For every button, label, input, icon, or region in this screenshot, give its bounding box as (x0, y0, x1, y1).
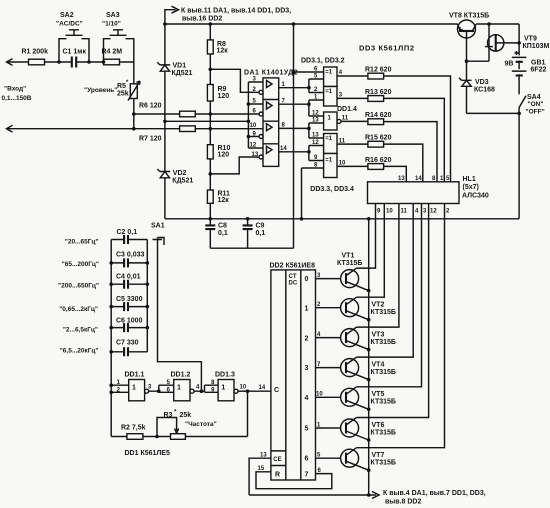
node junction C1 right (87, 60, 91, 64)
node junction battery column bottom (517, 112, 521, 116)
capacitor C2 (111, 239, 147, 241)
svg-text:12к: 12к (218, 197, 230, 204)
svg-text:"20...65Гц": "20...65Гц" (65, 239, 99, 246)
svg-text:VD2: VD2 (173, 170, 187, 177)
svg-text:1: 1 (177, 385, 181, 392)
resistor R6 (180, 111, 196, 117)
wire base VT6 (316, 427, 341, 429)
svg-text:C4 0,01: C4 0,01 (116, 274, 141, 281)
svg-text:12: 12 (312, 140, 319, 146)
node junction bus1 pin6 (292, 70, 296, 74)
transistor VT3 (341, 329, 359, 347)
svg-text:0,1: 0,1 (218, 230, 228, 237)
svg-text:C8: C8 (218, 223, 227, 230)
svg-text:"AC/DC": "AC/DC" (56, 21, 83, 28)
wire R5 column (133, 62, 135, 129)
wire VT8 base node (467, 60, 490, 62)
wire HL1 pin9 to VT1 collector (357, 204, 376, 269)
svg-text:11: 11 (339, 138, 346, 144)
svg-text:12: 12 (312, 111, 319, 117)
svg-text:"6,5...20кГц": "6,5...20кГц" (60, 348, 99, 355)
svg-text:0,1: 0,1 (256, 230, 266, 237)
resistor R10 (207, 145, 213, 159)
transistor VT8 (458, 20, 476, 38)
wire capacitor right bus (146, 240, 148, 352)
wire C8 C9 bottom (210, 247, 293, 249)
zener VD3 (466, 61, 468, 113)
svg-text:7: 7 (305, 472, 309, 479)
svg-text:К выв.4 DA1, выв.7 DD1, DD3,: К выв.4 DA1, выв.7 DD1, DD3, (383, 490, 486, 497)
svg-text:C: C (274, 387, 279, 394)
wire gate4 output to R15 (337, 144, 423, 182)
svg-text:SA3: SA3 (106, 12, 120, 19)
wire gate input connector D (309, 146, 324, 161)
node junction R5 to R6 line (132, 112, 136, 116)
wire HL1 pin12 to VT6 collector (357, 204, 429, 418)
node junction R10 R11 tap (209, 172, 213, 176)
resistor R14 (368, 119, 384, 125)
svg-text:VT2: VT2 (372, 302, 385, 309)
wire base VT2 (316, 307, 341, 309)
svg-text:13: 13 (312, 133, 319, 139)
wire DD2 clock input (248, 390, 271, 392)
svg-text:VD1: VD1 (173, 63, 187, 70)
resistor R11 (207, 190, 213, 203)
svg-text:VT1: VT1 (342, 253, 355, 260)
wire gate input connector B (309, 100, 324, 116)
node junction R5 column to input line 2 (132, 127, 136, 131)
potentiometer R5 (130, 84, 137, 99)
wire DA1 output 14 (279, 151, 309, 153)
svg-text:CE: CE (273, 457, 281, 463)
wire DD1.2 out to DD1.3 (194, 385, 218, 392)
wire tap to DA1 pin13 (210, 157, 259, 174)
node junction base VD3 (465, 59, 469, 63)
wire gate5 output to R16 (337, 166, 406, 181)
capacitor C1 (72, 57, 76, 68)
node junction rail C8 (246, 217, 250, 221)
svg-text:12: 12 (430, 209, 437, 215)
wire base VT7 (316, 457, 341, 459)
wire gate3 output to R14 (341, 121, 437, 181)
wire DD2 R reset loop from output 7 (256, 472, 332, 489)
svg-text:DD3 К561ЛП2: DD3 К561ЛП2 (359, 44, 415, 53)
svg-text:9В: 9В (505, 61, 514, 68)
svg-text:R5: R5 (117, 83, 126, 90)
gate DD3.4 (324, 154, 337, 178)
resistor R16 (368, 164, 384, 170)
node junction bus pin9 (247, 135, 251, 139)
svg-text:DA1 К1401УД2: DA1 К1401УД2 (244, 70, 298, 77)
svg-text:КД521: КД521 (172, 178, 193, 185)
svg-text:SA2: SA2 (60, 12, 74, 19)
transistor VT7 (341, 449, 359, 467)
svg-text:DD1.4: DD1.4 (337, 106, 357, 113)
wire arrow to power pins (165, 10, 176, 24)
svg-text:(5х7): (5х7) (463, 184, 479, 191)
svg-text:КТ315Б: КТ315Б (371, 430, 396, 437)
svg-text:выв.8 DD2: выв.8 DD2 (385, 499, 421, 506)
capacitor C6 (111, 327, 147, 329)
wire mid signal line (165, 120, 249, 122)
svg-text:10: 10 (339, 161, 346, 167)
svg-text:R14 620: R14 620 (365, 112, 392, 119)
capacitor C4 (111, 283, 147, 285)
gate DD1.4 (324, 112, 337, 130)
svg-text:11: 11 (401, 209, 408, 215)
arrowhead input 2 (7, 125, 13, 132)
wire common emitter column (368, 219, 370, 495)
counter DD2 box (271, 270, 316, 480)
svg-text:HL1: HL1 (463, 176, 476, 183)
svg-text:1: 1 (305, 306, 309, 313)
svg-text:6: 6 (305, 456, 309, 463)
svg-text:VT9: VT9 (524, 36, 537, 43)
svg-text:13: 13 (252, 152, 259, 158)
resistor R1 (29, 59, 45, 65)
op-amp DA1.4 triangle (267, 146, 273, 153)
wire HL1 pin3 to VT5 collector (357, 204, 422, 387)
transistor VT2 (341, 299, 359, 317)
svg-text:DD3.1, DD3.2: DD3.1, DD3.2 (301, 58, 345, 65)
svg-text:КТ315Б: КТ315Б (337, 260, 362, 267)
wire HL1 pin4 to VT4 collector (357, 204, 414, 358)
wire DA1 input bus (248, 82, 263, 148)
diode VD1 (157, 62, 170, 65)
resistor R7 (180, 126, 196, 132)
wire base VT5 (316, 396, 341, 398)
svg-text:12к: 12к (217, 48, 229, 55)
svg-text:C2 0,1: C2 0,1 (117, 229, 138, 236)
svg-text:C5 3300: C5 3300 (116, 296, 143, 303)
svg-text:КТ315Б: КТ315Б (371, 309, 396, 316)
resistor R9 (207, 85, 213, 102)
resistor ladder column (209, 24, 211, 219)
svg-text:=1: =1 (325, 158, 333, 164)
svg-text:120: 120 (218, 93, 230, 100)
wire gate input connector A (309, 79, 324, 93)
svg-text:1: 1 (132, 385, 136, 392)
svg-text:15: 15 (258, 466, 265, 472)
node junction R4 left (102, 60, 106, 64)
svg-text:DD2 К561ИЕ8: DD2 К561ИЕ8 (270, 263, 316, 270)
wire input line 2 (7, 128, 263, 130)
svg-text:R13 620: R13 620 (365, 89, 392, 96)
svg-text:0: 0 (305, 276, 309, 283)
battery GB1 (518, 24, 520, 94)
svg-text:11: 11 (342, 116, 349, 122)
svg-text:=1: =1 (325, 70, 333, 76)
node junction rail bus1 (292, 22, 296, 26)
svg-text:DD1.2: DD1.2 (171, 372, 191, 379)
svg-text:АЛС340: АЛС340 (462, 193, 489, 200)
svg-text:C1 1мк: C1 1мк (63, 49, 87, 56)
transistor VT1 (341, 270, 359, 288)
svg-text:"0,65...2кГц": "0,65...2кГц" (59, 306, 98, 313)
svg-text:R9: R9 (218, 86, 227, 93)
wire DD1.1 out to DD1.2 (149, 385, 174, 392)
capacitor C3 (111, 262, 147, 264)
svg-text:14: 14 (259, 385, 266, 391)
wire DA1 output 7 (279, 103, 309, 105)
svg-text:10: 10 (250, 123, 257, 129)
svg-text:14: 14 (415, 176, 422, 182)
svg-text:2: 2 (305, 336, 309, 343)
DA1 inverting input circles (259, 90, 263, 94)
gate DD3.3 (324, 134, 337, 154)
transistor VT5 (341, 388, 359, 406)
svg-text:VD3: VD3 (475, 79, 489, 86)
wire HL1 pin2 to VT7 collector (357, 204, 445, 448)
svg-text:"Частота": "Частота" (185, 421, 217, 428)
svg-text:"Уровень": "Уровень" (84, 87, 117, 94)
arrowhead input 1 (7, 59, 13, 66)
svg-text:"1/10": "1/10" (102, 21, 121, 28)
wire tap to DA1 pin2 (210, 69, 259, 92)
wire DA1 output 1 (279, 87, 309, 89)
wire gate input connector C (309, 123, 324, 138)
svg-text:КС168: КС168 (474, 87, 495, 94)
node junction R9 bottom R6 line (209, 112, 213, 116)
op-amp U DA1 box (263, 78, 279, 166)
transistor VT6 (341, 419, 359, 437)
svg-text:13: 13 (398, 176, 405, 182)
node junction R11 bottom rail (209, 217, 213, 221)
svg-text:выв.16 DD2: выв.16 DD2 (182, 16, 222, 23)
svg-text:C3 0,033: C3 0,033 (116, 252, 145, 259)
resistor R12 (368, 73, 384, 79)
svg-text:DD1 К561ЛЕ5: DD1 К561ЛЕ5 (125, 450, 170, 457)
switch SA3 (104, 30, 134, 62)
svg-text:1: 1 (221, 385, 225, 392)
svg-text:DD1.1: DD1.1 (125, 372, 145, 379)
svg-text:10: 10 (240, 385, 247, 391)
svg-text:C9: C9 (256, 223, 265, 230)
node junction rail VD column (163, 22, 167, 26)
svg-text:R1 200k: R1 200k (22, 49, 49, 56)
display HL1 (368, 182, 460, 204)
svg-text:4: 4 (305, 395, 309, 402)
transistor VT4 (341, 359, 359, 377)
svg-text:R15 620: R15 620 (365, 135, 392, 142)
node junction R8 R9 tap (209, 68, 213, 72)
wire gate2 output to R13 (337, 98, 444, 181)
node junction C1 left (57, 60, 61, 64)
svg-text:VT6: VT6 (372, 422, 385, 429)
svg-text:R16 620: R16 620 (365, 157, 392, 164)
svg-text:"2...6,5кГц": "2...6,5кГц" (63, 327, 98, 334)
potentiometer R3 (171, 434, 186, 440)
wire R6 line (134, 113, 259, 115)
svg-text:10: 10 (386, 209, 393, 215)
node junction rail emitter column (367, 217, 371, 221)
svg-text:КТ315Б: КТ315Б (371, 399, 396, 406)
transistor VT9 (488, 35, 504, 51)
svg-text:=1: =1 (325, 89, 333, 95)
svg-text:SA1: SA1 (151, 223, 165, 230)
resistor R2 (127, 434, 143, 440)
wire DD2 CE loop (249, 458, 271, 495)
wire DD1.3 out (238, 390, 248, 392)
svg-text:SA4: SA4 (527, 94, 541, 101)
node junction rail R8 (209, 22, 213, 26)
wire HL1 pin10 to VT2 collector (357, 204, 385, 298)
svg-text:120: 120 (218, 152, 230, 159)
svg-text:25k: 25k (180, 412, 192, 419)
svg-text:КТ315Б: КТ315Б (371, 339, 396, 346)
gate DD3.1 (324, 67, 337, 87)
switch SA2 (59, 30, 89, 62)
svg-text:3: 3 (305, 365, 309, 372)
svg-text:DD3.3, DD3.4: DD3.3, DD3.4 (310, 186, 354, 193)
wire VD column (164, 24, 166, 219)
svg-text:DC: DC (289, 281, 298, 287)
svg-text:R7 120: R7 120 (139, 136, 162, 143)
op-amp DA1.3 triangle (267, 124, 273, 131)
svg-text:R6 120: R6 120 (139, 103, 162, 110)
svg-text:VT7: VT7 (372, 452, 385, 459)
capacitor C7 (111, 351, 147, 353)
gate DD1.2 (174, 380, 190, 401)
svg-text:VT5: VT5 (372, 391, 385, 398)
node junction rail VT9 gate (487, 22, 491, 26)
svg-text:25k: 25k (117, 91, 129, 98)
svg-text:12: 12 (250, 143, 257, 149)
wire bus1 gate common (294, 24, 324, 248)
svg-text:VT3: VT3 (372, 332, 385, 339)
op-amp DA1.2 triangle (267, 102, 273, 109)
svg-text:"Вход": "Вход" (4, 86, 26, 93)
wire DA1 output 8 (279, 127, 309, 129)
svg-text:VT4: VT4 (372, 362, 385, 369)
wire input line 1 (7, 61, 134, 63)
capacitor C8 (209, 219, 211, 248)
node junction ladder input line2 (209, 127, 213, 131)
resistor R13 (368, 96, 384, 102)
wire VD3 return to battery column (467, 112, 520, 114)
svg-text:13: 13 (260, 453, 267, 459)
node junction bus pin5 (247, 102, 251, 106)
svg-text:КТ315Б: КТ315Б (371, 369, 396, 376)
gate DD1.1 (129, 380, 145, 401)
svg-text:R3: R3 (164, 412, 173, 419)
wire base VT3 (316, 337, 341, 339)
svg-text:13: 13 (312, 118, 319, 124)
wire left capacitor bus (110, 240, 112, 437)
DD2 CE section (271, 451, 286, 466)
node junction bus2 rail (300, 217, 304, 221)
diode VD2 (157, 169, 170, 172)
node junction battery VT9 (517, 41, 521, 45)
svg-text:DD1.3: DD1.3 (215, 372, 235, 379)
svg-text:"OFF": "OFF" (526, 109, 545, 116)
capacitor C9 (247, 219, 249, 248)
svg-text:"200...650Гц": "200...650Гц" (58, 283, 99, 290)
svg-text:КТ315Б: КТ315Б (371, 460, 396, 467)
svg-text:КП103М: КП103М (523, 43, 550, 50)
wire negative rail (165, 218, 519, 220)
wire top power rail (165, 23, 519, 25)
svg-text:R: R (275, 472, 280, 479)
gate DD1.3 (218, 380, 234, 401)
svg-text:R4 2M: R4 2M (102, 49, 123, 56)
svg-text:6F22: 6F22 (531, 67, 547, 74)
svg-text:GB1: GB1 (531, 60, 546, 67)
svg-text:C6 1000: C6 1000 (116, 318, 143, 325)
node junction bus mid line (247, 120, 251, 124)
resistor R15 (368, 141, 384, 147)
svg-text:CT: CT (289, 274, 297, 280)
svg-text:R2 7,5k: R2 7,5k (121, 425, 146, 432)
svg-text:R12 620: R12 620 (365, 67, 392, 74)
wire gate1 output to R12 (337, 76, 451, 182)
resistor R8 (207, 40, 213, 54)
wire HL1 pin11 to VT3 collector (357, 204, 399, 328)
resistor R4 (104, 59, 120, 65)
capacitor C5 (111, 306, 147, 308)
node junction VD column mid line (163, 120, 167, 124)
wire base VT1 (316, 278, 341, 280)
svg-text:"65...200Гц": "65...200Гц" (62, 261, 99, 268)
svg-text:C7 330: C7 330 (116, 340, 139, 347)
svg-text:=1: =1 (325, 136, 333, 142)
op-amp DA1.1 triangle (267, 81, 273, 88)
svg-text:5: 5 (305, 426, 309, 433)
wire base VT4 (316, 367, 341, 369)
wire bottom common line (249, 494, 376, 496)
svg-text:К выв.11 DA1, выв.14 DD1, DD3,: К выв.11 DA1, выв.14 DD1, DD3, (181, 8, 291, 15)
svg-text:VT8 КТ315Б: VT8 КТ315Б (449, 13, 489, 20)
gate DD3.2 (324, 87, 337, 107)
svg-text:0,1...150В: 0,1...150В (2, 95, 32, 102)
svg-text:"ON": "ON" (528, 101, 544, 108)
wire feedback R2 R3 row (111, 391, 247, 436)
svg-text:14: 14 (280, 146, 287, 152)
wire bus2 gate to rail (302, 168, 324, 219)
svg-text:КД521: КД521 (172, 70, 193, 77)
switch SA4 (519, 96, 526, 108)
